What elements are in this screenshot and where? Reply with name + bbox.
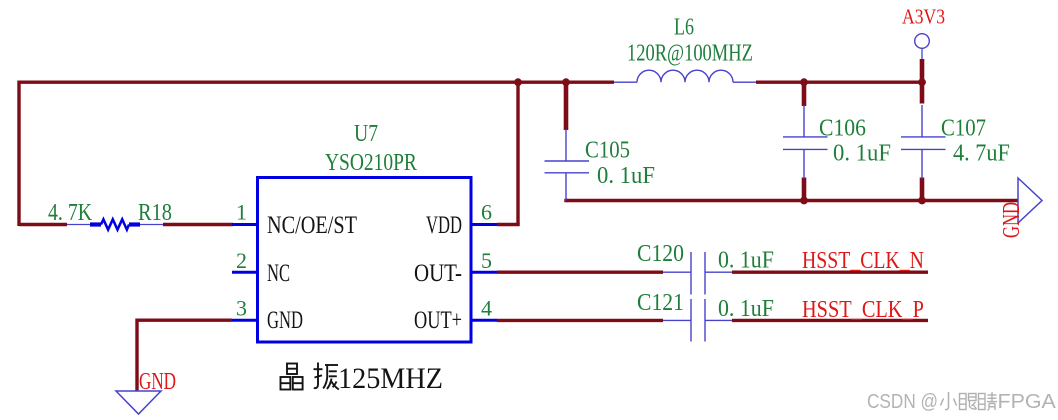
chip U7 body [258,178,472,343]
svg-text:GND: GND [267,306,303,334]
wire C106 top stub [802,82,807,106]
svg-text:4. 7uF: 4. 7uF [953,140,1010,167]
power port A3V3 circle [915,34,930,49]
svg-text:HSST_CLK_N: HSST_CLK_N [802,246,924,273]
svg-text:NC/OE/ST: NC/OE/ST [267,211,357,238]
svg-text:C105: C105 [585,136,630,163]
junction at VDD riser [514,78,522,86]
pin 3 stub [232,319,257,322]
capacitor C120 series [663,252,732,295]
svg-text:GND: GND [999,202,1025,238]
pin 6 stub [471,223,497,226]
watermark CJK xiao glyph [941,392,957,410]
pin 5 stub [471,271,497,274]
junction at C105 top [562,78,570,86]
junction at A3V3 rail [918,78,926,86]
svg-text:C106: C106 [819,115,866,141]
capacitor C107 [901,105,946,179]
junction at C106 bottom [800,197,808,205]
wire C106 bottom stub [802,178,807,201]
inductor L6 [614,70,756,82]
wire left vertical [17,81,20,226]
svg-text:HSST_CLK_P: HSST_CLK_P [802,295,924,322]
junction at C106 top [800,78,808,86]
wire OUT- row right HSST_CLK_N [732,271,928,274]
wire bottom rail [566,199,1018,202]
wire top rail left [18,80,615,83]
pin 1 stub [232,223,257,226]
ground symbol right pennant [1018,178,1042,223]
svg-text:OUT+: OUT+ [414,305,462,334]
wire OUT+ row right HSST_CLK_P [732,319,928,322]
watermark CJK yan glyph [960,394,977,410]
svg-text:R18: R18 [138,198,172,225]
svg-text:U7: U7 [354,119,378,146]
wire C107 bottom stub [920,178,925,201]
svg-text:6: 6 [481,200,492,225]
svg-text:YSO210PR: YSO210PR [325,149,417,175]
svg-text:C121: C121 [637,289,684,315]
svg-text:4. 7K: 4. 7K [48,198,92,225]
svg-text:0. 1uF: 0. 1uF [718,247,774,273]
svg-text:0. 1uF: 0. 1uF [718,295,774,321]
wire GND row pin3 [137,319,232,322]
ground symbol left triangle [116,391,161,414]
chip caption CJK zhen (oscillate) glyph [314,363,339,390]
wire resistor row right [163,223,233,226]
svg-text:120R@100MHZ: 120R@100MHZ [627,39,753,66]
wire OUT- row left [497,271,663,274]
svg-text:OUT-: OUT- [414,258,462,286]
svg-text:C107: C107 [941,114,986,141]
wire GND vertical [135,319,138,392]
svg-text:0. 1uF: 0. 1uF [833,140,891,167]
capacitor C105 [545,129,590,201]
svg-text:1: 1 [236,200,247,225]
svg-text:L6: L6 [674,13,694,40]
svg-text:FPGA: FPGA [998,391,1056,413]
wire A3V3 vertical [921,48,923,59]
svg-text:CSDN @: CSDN @ [867,390,938,413]
pin 4 stub [471,319,497,322]
wire OUT+ row left [497,319,663,322]
wire VDD horizontal [497,223,520,226]
resistor R18 [67,219,163,229]
svg-text:A3V3: A3V3 [902,6,945,29]
svg-text:2: 2 [236,248,247,273]
svg-text:0. 1uF: 0. 1uF [597,162,655,189]
chip caption CJK jing (crystal) glyph [281,364,303,390]
junction at C107 bottom [918,197,926,205]
wire bottom rail corner [564,199,567,202]
wire top rail right [756,80,922,83]
wire VDD vertical [516,82,519,224]
svg-text:4: 4 [481,295,492,320]
svg-text:GND: GND [139,367,176,395]
capacitor C106 [783,105,828,179]
svg-text:125MHZ: 125MHZ [338,362,443,395]
wire C105 top stub [564,82,569,130]
svg-text:VDD: VDD [426,211,462,239]
wire resistor row left [19,223,67,226]
svg-text:C120: C120 [637,240,684,266]
capacitor C121 series [663,299,732,342]
pin 2 stub [232,271,257,274]
watermark CJK jing2 glyph [979,392,998,410]
svg-text:NC: NC [267,259,290,287]
svg-text:5: 5 [481,248,492,273]
svg-text:3: 3 [236,295,247,320]
